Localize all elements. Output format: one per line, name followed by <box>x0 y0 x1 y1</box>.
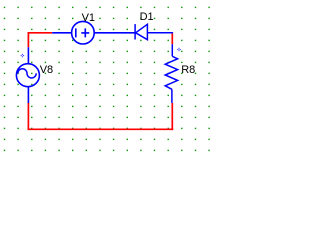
V8 top lead <box>27 47 29 64</box>
V1 plus sign <box>81 28 89 37</box>
diode D1 <box>135 24 173 40</box>
V1 circle body <box>72 21 95 44</box>
V8 circle body <box>16 64 39 87</box>
V1 left lead <box>52 32 71 34</box>
R8 zigzag body <box>165 56 177 89</box>
wire right vertical lower red <box>171 103 173 130</box>
V8 plus polarity marker <box>21 54 24 57</box>
V8 sine wave <box>18 69 36 78</box>
voltage source V1 <box>52 21 134 44</box>
D1 triangle <box>136 24 148 39</box>
label V1 <box>82 13 95 24</box>
D1 cathode bar <box>134 24 136 39</box>
R8 plus polarity marker <box>177 48 180 51</box>
wire bottom horizontal red <box>28 128 174 130</box>
V1 right lead <box>94 32 134 34</box>
resistor R8 <box>165 44 177 103</box>
grid dots (decorative) <box>4 7 210 151</box>
label D1 <box>140 12 154 23</box>
AC source V8 <box>16 47 39 103</box>
wire left vertical lower red <box>27 103 29 130</box>
D1 right lead <box>147 32 173 34</box>
wire left vertical upper red <box>27 32 29 47</box>
V8 bottom lead <box>27 87 29 103</box>
R8 bottom lead <box>171 89 173 103</box>
wire right vertical upper red <box>171 34 173 45</box>
wire top-left horizontal red <box>28 32 53 34</box>
R8 top lead <box>171 44 173 56</box>
label R8 <box>181 65 195 76</box>
V1 minus bar pin <box>75 28 77 37</box>
label V8 <box>40 65 53 76</box>
